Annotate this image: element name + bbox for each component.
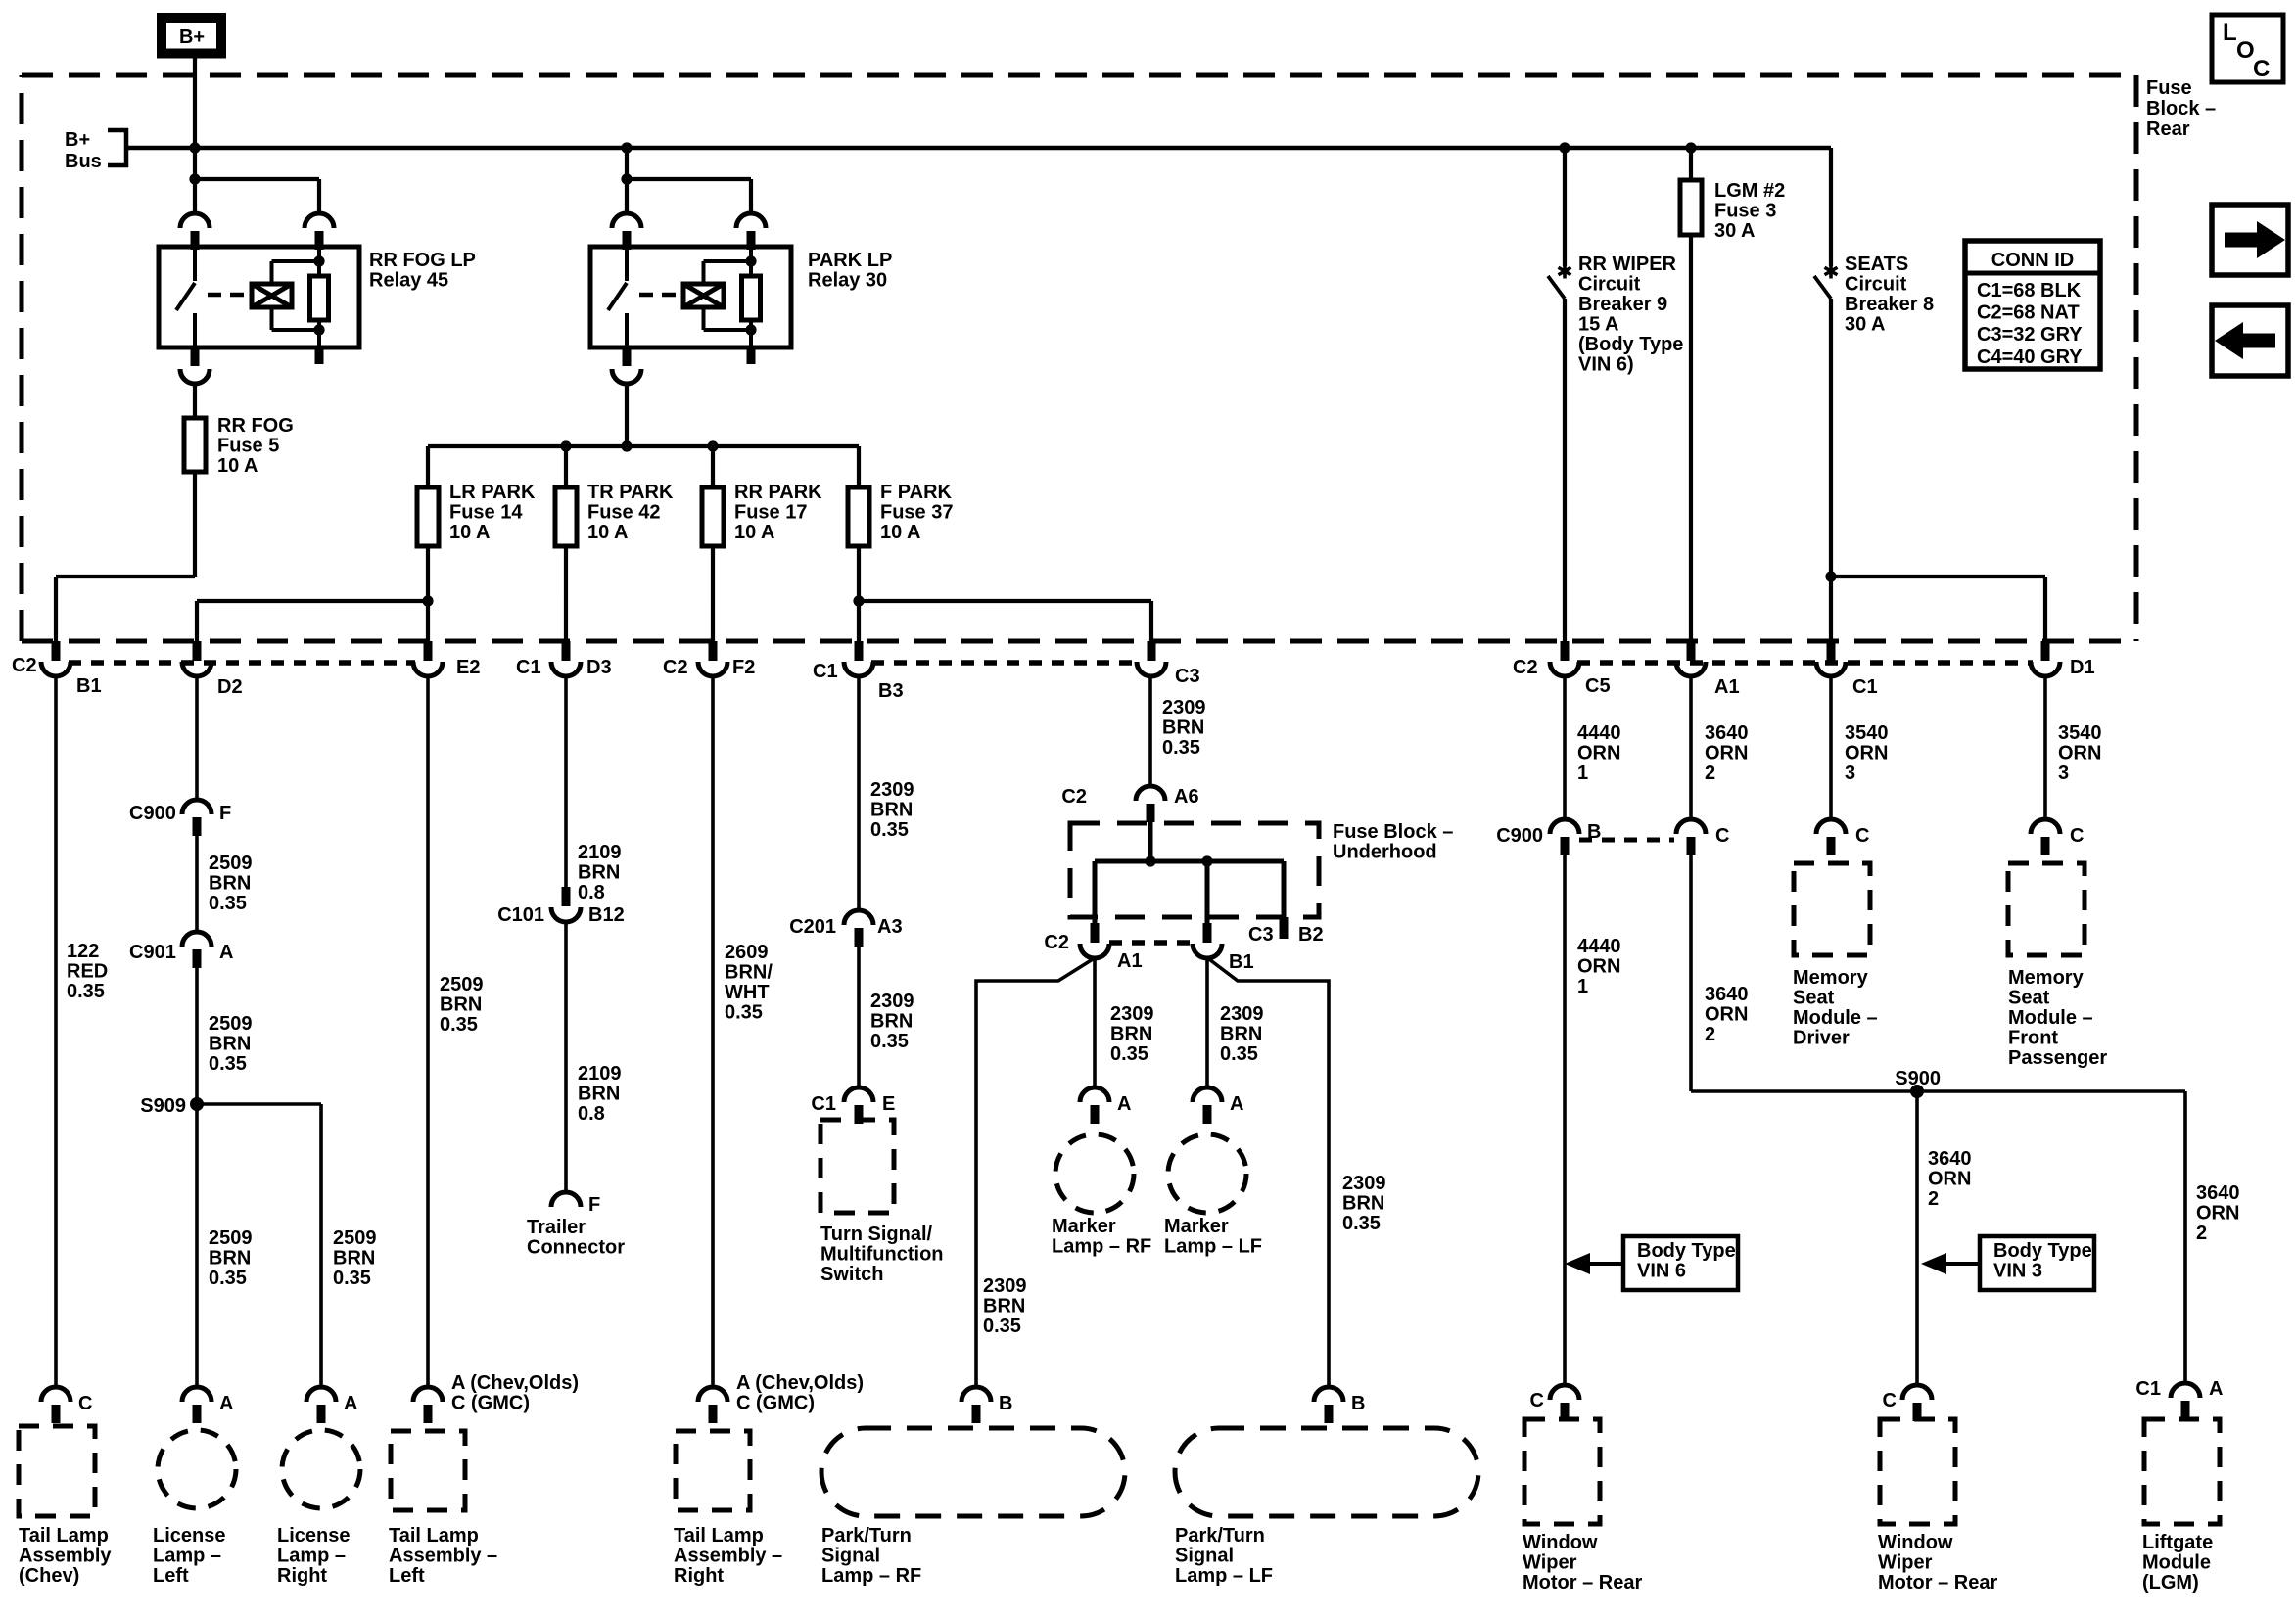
svg-text:BRN: BRN — [209, 1034, 251, 1055]
svg-text:2309: 2309 — [1220, 1003, 1264, 1025]
svg-text:Front: Front — [2008, 1028, 2058, 1049]
svg-text:BRN: BRN — [1162, 717, 1204, 739]
svg-text:Window: Window — [1878, 1532, 1953, 1553]
svg-text:B1: B1 — [76, 675, 102, 697]
svg-text:S900: S900 — [1895, 1068, 1941, 1089]
svg-text:Trailer: Trailer — [527, 1217, 586, 1238]
svg-text:D2: D2 — [217, 676, 243, 698]
svg-text:0.35: 0.35 — [1110, 1043, 1148, 1065]
svg-text:A: A — [219, 1393, 233, 1414]
svg-text:4440: 4440 — [1577, 722, 1621, 744]
svg-text:0.35: 0.35 — [209, 893, 247, 914]
svg-text:A: A — [344, 1393, 357, 1414]
svg-text:3540: 3540 — [1845, 722, 1889, 744]
svg-text:B3: B3 — [878, 680, 904, 702]
svg-text:C: C — [2070, 825, 2084, 847]
svg-text:C1: C1 — [1852, 676, 1878, 698]
svg-text:BRN: BRN — [209, 1248, 251, 1270]
svg-text:0.35: 0.35 — [1342, 1213, 1381, 1234]
svg-text:Switch: Switch — [820, 1264, 883, 1285]
svg-text:Liftgate: Liftgate — [2142, 1532, 2213, 1553]
svg-text:2109: 2109 — [578, 1063, 622, 1085]
svg-text:Module –: Module – — [1793, 1007, 1878, 1029]
svg-text:Fuse 42: Fuse 42 — [587, 502, 660, 524]
svg-text:122: 122 — [67, 941, 99, 962]
svg-text:Assembly –: Assembly – — [674, 1546, 782, 1567]
svg-text:1: 1 — [1577, 976, 1588, 997]
svg-text:RR FOG LP: RR FOG LP — [369, 250, 476, 271]
svg-text:0.8: 0.8 — [578, 882, 605, 903]
svg-text:2509: 2509 — [333, 1227, 377, 1249]
svg-text:C2: C2 — [1044, 932, 1069, 953]
svg-text:Fuse: Fuse — [2146, 77, 2192, 99]
svg-text:O: O — [2236, 37, 2255, 64]
svg-text:Fuse 14: Fuse 14 — [449, 502, 523, 524]
svg-text:C1: C1 — [2135, 1378, 2161, 1400]
svg-text:C1: C1 — [813, 661, 838, 682]
svg-text:Tail Lamp: Tail Lamp — [389, 1525, 479, 1547]
svg-text:C2=68 NAT: C2=68 NAT — [1977, 302, 2080, 324]
svg-text:BRN: BRN — [209, 873, 251, 895]
svg-text:A (Chev,Olds): A (Chev,Olds) — [451, 1372, 579, 1394]
svg-text:C: C — [1530, 1390, 1544, 1411]
svg-text:Wiper: Wiper — [1523, 1552, 1577, 1574]
svg-text:BRN: BRN — [333, 1248, 375, 1270]
svg-text:2609: 2609 — [725, 942, 769, 963]
svg-text:B+: B+ — [65, 129, 90, 151]
svg-text:2309: 2309 — [983, 1275, 1027, 1297]
svg-text:VIN 6): VIN 6) — [1578, 354, 1634, 376]
svg-text:ORN: ORN — [1705, 743, 1748, 764]
svg-text:3640: 3640 — [2196, 1182, 2240, 1204]
svg-text:Passenger: Passenger — [2008, 1047, 2107, 1069]
svg-text:Marker: Marker — [1164, 1216, 1229, 1237]
svg-text:C: C — [1855, 825, 1869, 847]
svg-text:C (GMC): C (GMC) — [451, 1393, 530, 1414]
svg-text:PARK LP: PARK LP — [808, 250, 892, 271]
svg-text:Lamp –: Lamp – — [277, 1546, 346, 1567]
svg-text:10 A: 10 A — [449, 522, 491, 543]
svg-text:C2: C2 — [1513, 657, 1538, 678]
svg-text:C3: C3 — [1175, 666, 1200, 687]
svg-text:0.35: 0.35 — [1162, 737, 1200, 759]
svg-text:C2: C2 — [12, 655, 37, 676]
svg-text:Relay 45: Relay 45 — [369, 270, 448, 292]
svg-text:F: F — [588, 1194, 600, 1216]
svg-text:D3: D3 — [586, 657, 612, 678]
svg-text:Lamp – LF: Lamp – LF — [1164, 1236, 1262, 1258]
svg-text:0.35: 0.35 — [333, 1268, 371, 1289]
svg-text:Breaker 9: Breaker 9 — [1578, 294, 1667, 315]
svg-text:Connector: Connector — [527, 1237, 625, 1259]
svg-text:S909: S909 — [140, 1095, 186, 1117]
svg-text:BRN: BRN — [1342, 1193, 1384, 1215]
svg-text:C2: C2 — [1061, 786, 1087, 808]
svg-text:0.35: 0.35 — [870, 819, 909, 841]
svg-text:Body Type: Body Type — [1637, 1240, 1736, 1262]
svg-text:B12: B12 — [588, 904, 625, 926]
svg-text:BRN: BRN — [578, 862, 620, 884]
svg-text:ORN: ORN — [2196, 1203, 2239, 1224]
svg-text:Motor – Rear: Motor – Rear — [1878, 1572, 1997, 1594]
svg-text:LGM #2: LGM #2 — [1714, 180, 1785, 202]
svg-text:0.35: 0.35 — [67, 981, 105, 1002]
svg-text:F: F — [219, 803, 231, 824]
svg-text:VIN 6: VIN 6 — [1637, 1261, 1686, 1282]
svg-text:Body Type: Body Type — [1993, 1240, 2092, 1262]
svg-text:2509: 2509 — [440, 974, 484, 995]
svg-text:0.35: 0.35 — [983, 1316, 1021, 1337]
svg-text:Fuse 17: Fuse 17 — [734, 502, 807, 524]
svg-text:C900: C900 — [129, 803, 176, 824]
svg-text:Marker: Marker — [1052, 1216, 1116, 1237]
svg-text:2: 2 — [1705, 762, 1715, 784]
svg-text:Right: Right — [277, 1565, 327, 1587]
svg-text:BRN: BRN — [870, 800, 913, 821]
svg-text:2509: 2509 — [209, 853, 253, 874]
svg-text:RR PARK: RR PARK — [734, 482, 822, 503]
svg-text:C101: C101 — [497, 904, 544, 926]
svg-text:BRN: BRN — [1220, 1024, 1262, 1045]
svg-text:Signal: Signal — [821, 1546, 880, 1567]
svg-text:2: 2 — [1928, 1188, 1939, 1210]
svg-text:TR PARK: TR PARK — [587, 482, 674, 503]
svg-text:B2: B2 — [1298, 924, 1324, 946]
svg-text:BRN: BRN — [440, 994, 482, 1016]
svg-text:BRN: BRN — [1110, 1024, 1152, 1045]
svg-text:0.35: 0.35 — [440, 1014, 478, 1036]
svg-text:BRN/: BRN/ — [725, 962, 773, 984]
svg-text:0.8: 0.8 — [578, 1103, 605, 1125]
svg-text:Left: Left — [153, 1565, 189, 1587]
svg-text:0.35: 0.35 — [870, 1031, 909, 1052]
svg-text:A: A — [219, 942, 233, 963]
svg-text:3640: 3640 — [1928, 1148, 1972, 1170]
svg-text:3540: 3540 — [2058, 722, 2102, 744]
svg-text:10 A: 10 A — [217, 455, 258, 477]
svg-text:Motor – Rear: Motor – Rear — [1523, 1572, 1642, 1594]
svg-text:F PARK: F PARK — [880, 482, 953, 503]
svg-text:BRN: BRN — [870, 1011, 913, 1033]
svg-text:Memory: Memory — [1793, 967, 1869, 989]
svg-text:ORN: ORN — [1845, 743, 1888, 764]
svg-text:C: C — [78, 1393, 92, 1414]
svg-text:VIN 3: VIN 3 — [1993, 1261, 2042, 1282]
svg-text:(LGM): (LGM) — [2142, 1572, 2199, 1594]
svg-text:3: 3 — [1845, 762, 1855, 784]
svg-text:ORN: ORN — [1577, 743, 1620, 764]
svg-text:ORN: ORN — [1705, 1004, 1748, 1026]
svg-text:Left: Left — [389, 1565, 425, 1587]
svg-text:Block –: Block – — [2146, 98, 2216, 119]
svg-text:Signal: Signal — [1175, 1546, 1234, 1567]
svg-text:A: A — [1117, 1093, 1131, 1115]
svg-text:Memory: Memory — [2008, 967, 2085, 989]
svg-text:2309: 2309 — [870, 779, 914, 801]
svg-text:ORN: ORN — [2058, 743, 2101, 764]
svg-text:Assembly –: Assembly – — [389, 1546, 497, 1567]
svg-text:ORN: ORN — [1928, 1169, 1971, 1190]
svg-text:C1: C1 — [516, 657, 541, 678]
svg-text:C3: C3 — [1248, 924, 1274, 946]
svg-text:RR WIPER: RR WIPER — [1578, 254, 1677, 275]
svg-text:License: License — [277, 1525, 350, 1547]
svg-text:Bus: Bus — [65, 151, 102, 172]
svg-text:0.35: 0.35 — [1220, 1043, 1258, 1065]
svg-text:30 A: 30 A — [1845, 314, 1886, 336]
svg-text:Seat: Seat — [1793, 988, 1835, 1009]
svg-text:Relay 30: Relay 30 — [808, 270, 887, 292]
svg-text:License: License — [153, 1525, 225, 1547]
svg-text:A: A — [2209, 1378, 2223, 1400]
svg-text:C: C — [2253, 56, 2270, 82]
svg-text:Lamp – RF: Lamp – RF — [821, 1565, 921, 1587]
svg-text:10 A: 10 A — [880, 522, 921, 543]
svg-text:CONN ID: CONN ID — [1991, 250, 2074, 271]
svg-text:Wiper: Wiper — [1878, 1552, 1933, 1574]
svg-text:Assembly: Assembly — [19, 1546, 112, 1567]
svg-text:Driver: Driver — [1793, 1028, 1850, 1049]
svg-text:Module –: Module – — [2008, 1007, 2093, 1029]
svg-text:B1: B1 — [1229, 951, 1254, 973]
svg-text:2509: 2509 — [209, 1013, 253, 1035]
svg-text:WHT: WHT — [725, 982, 770, 1003]
svg-text:F2: F2 — [732, 657, 755, 678]
svg-text:Park/Turn: Park/Turn — [821, 1525, 912, 1547]
svg-text:10 A: 10 A — [587, 522, 629, 543]
svg-text:A6: A6 — [1174, 786, 1199, 808]
svg-text:Tail Lamp: Tail Lamp — [674, 1525, 764, 1547]
svg-text:BRN: BRN — [983, 1296, 1025, 1317]
svg-text:4440: 4440 — [1577, 936, 1621, 957]
svg-text:Rear: Rear — [2146, 118, 2190, 140]
svg-text:Breaker 8: Breaker 8 — [1845, 294, 1934, 315]
svg-text:2309: 2309 — [1342, 1173, 1386, 1194]
svg-text:A: A — [1230, 1093, 1243, 1115]
svg-text:Park/Turn: Park/Turn — [1175, 1525, 1265, 1547]
svg-text:C901: C901 — [129, 942, 176, 963]
svg-text:E2: E2 — [456, 657, 480, 678]
svg-text:3: 3 — [2058, 762, 2069, 784]
svg-text:2109: 2109 — [578, 842, 622, 863]
svg-text:2309: 2309 — [1162, 697, 1206, 718]
svg-text:30 A: 30 A — [1714, 220, 1756, 242]
svg-text:Multifunction: Multifunction — [820, 1244, 944, 1266]
svg-text:A (Chev,Olds): A (Chev,Olds) — [736, 1372, 864, 1394]
svg-text:Right: Right — [674, 1565, 724, 1587]
svg-text:2: 2 — [1705, 1024, 1715, 1045]
svg-text:C4=40 GRY: C4=40 GRY — [1977, 346, 2083, 368]
svg-text:A1: A1 — [1117, 950, 1143, 972]
svg-text:Fuse 37: Fuse 37 — [880, 502, 953, 524]
svg-text:3640: 3640 — [1705, 722, 1749, 744]
svg-text:B+: B+ — [179, 26, 205, 48]
svg-text:D1: D1 — [2070, 657, 2095, 678]
svg-text:ORN: ORN — [1577, 956, 1620, 978]
svg-text:A3: A3 — [877, 916, 903, 938]
svg-text:Fuse 3: Fuse 3 — [1714, 201, 1776, 222]
svg-text:3640: 3640 — [1705, 984, 1749, 1005]
svg-text:C5: C5 — [1585, 675, 1611, 697]
svg-text:(Chev): (Chev) — [19, 1565, 79, 1587]
svg-text:10 A: 10 A — [734, 522, 775, 543]
svg-text:E: E — [882, 1093, 895, 1115]
svg-text:C201: C201 — [789, 916, 836, 938]
svg-text:0.35: 0.35 — [725, 1002, 763, 1024]
svg-text:C1: C1 — [811, 1093, 836, 1115]
svg-text:C2: C2 — [663, 657, 688, 678]
svg-text:2309: 2309 — [870, 991, 914, 1012]
svg-text:L: L — [2223, 20, 2237, 46]
svg-text:Fuse 5: Fuse 5 — [217, 436, 279, 457]
svg-text:Window: Window — [1523, 1532, 1598, 1553]
svg-text:C3=32 GRY: C3=32 GRY — [1977, 324, 2083, 346]
svg-text:Lamp –: Lamp – — [153, 1546, 221, 1567]
svg-text:(Body Type: (Body Type — [1578, 334, 1683, 355]
svg-text:Seat: Seat — [2008, 988, 2050, 1009]
svg-text:Fuse Block –: Fuse Block – — [1333, 821, 1453, 843]
svg-text:2309: 2309 — [1110, 1003, 1154, 1025]
svg-text:LR PARK: LR PARK — [449, 482, 536, 503]
svg-text:2: 2 — [2196, 1223, 2207, 1244]
svg-text:B: B — [1351, 1393, 1365, 1414]
svg-text:2509: 2509 — [209, 1227, 253, 1249]
svg-text:BRN: BRN — [578, 1084, 620, 1105]
svg-text:Circuit: Circuit — [1845, 274, 1907, 296]
svg-text:Circuit: Circuit — [1578, 274, 1641, 296]
svg-text:RR FOG: RR FOG — [217, 415, 294, 437]
svg-text:SEATS: SEATS — [1845, 254, 1908, 275]
svg-text:Lamp – RF: Lamp – RF — [1052, 1236, 1151, 1258]
svg-text:C: C — [1883, 1390, 1897, 1411]
svg-text:C (GMC): C (GMC) — [736, 1393, 815, 1414]
svg-text:1: 1 — [1577, 762, 1588, 784]
svg-text:A1: A1 — [1714, 676, 1740, 698]
svg-text:RED: RED — [67, 961, 108, 983]
svg-text:Lamp – LF: Lamp – LF — [1175, 1565, 1273, 1587]
svg-text:Tail Lamp: Tail Lamp — [19, 1525, 109, 1547]
svg-text:Module: Module — [2142, 1552, 2211, 1574]
svg-text:15 A: 15 A — [1578, 314, 1619, 336]
svg-text:0.35: 0.35 — [209, 1268, 247, 1289]
svg-text:C: C — [1715, 825, 1729, 847]
svg-text:C900: C900 — [1496, 825, 1543, 847]
svg-text:0.35: 0.35 — [209, 1053, 247, 1075]
svg-text:C1=68 BLK: C1=68 BLK — [1977, 280, 2082, 301]
svg-text:Turn Signal/: Turn Signal/ — [820, 1224, 933, 1245]
svg-text:Underhood: Underhood — [1333, 842, 1437, 863]
svg-text:B: B — [999, 1393, 1012, 1414]
